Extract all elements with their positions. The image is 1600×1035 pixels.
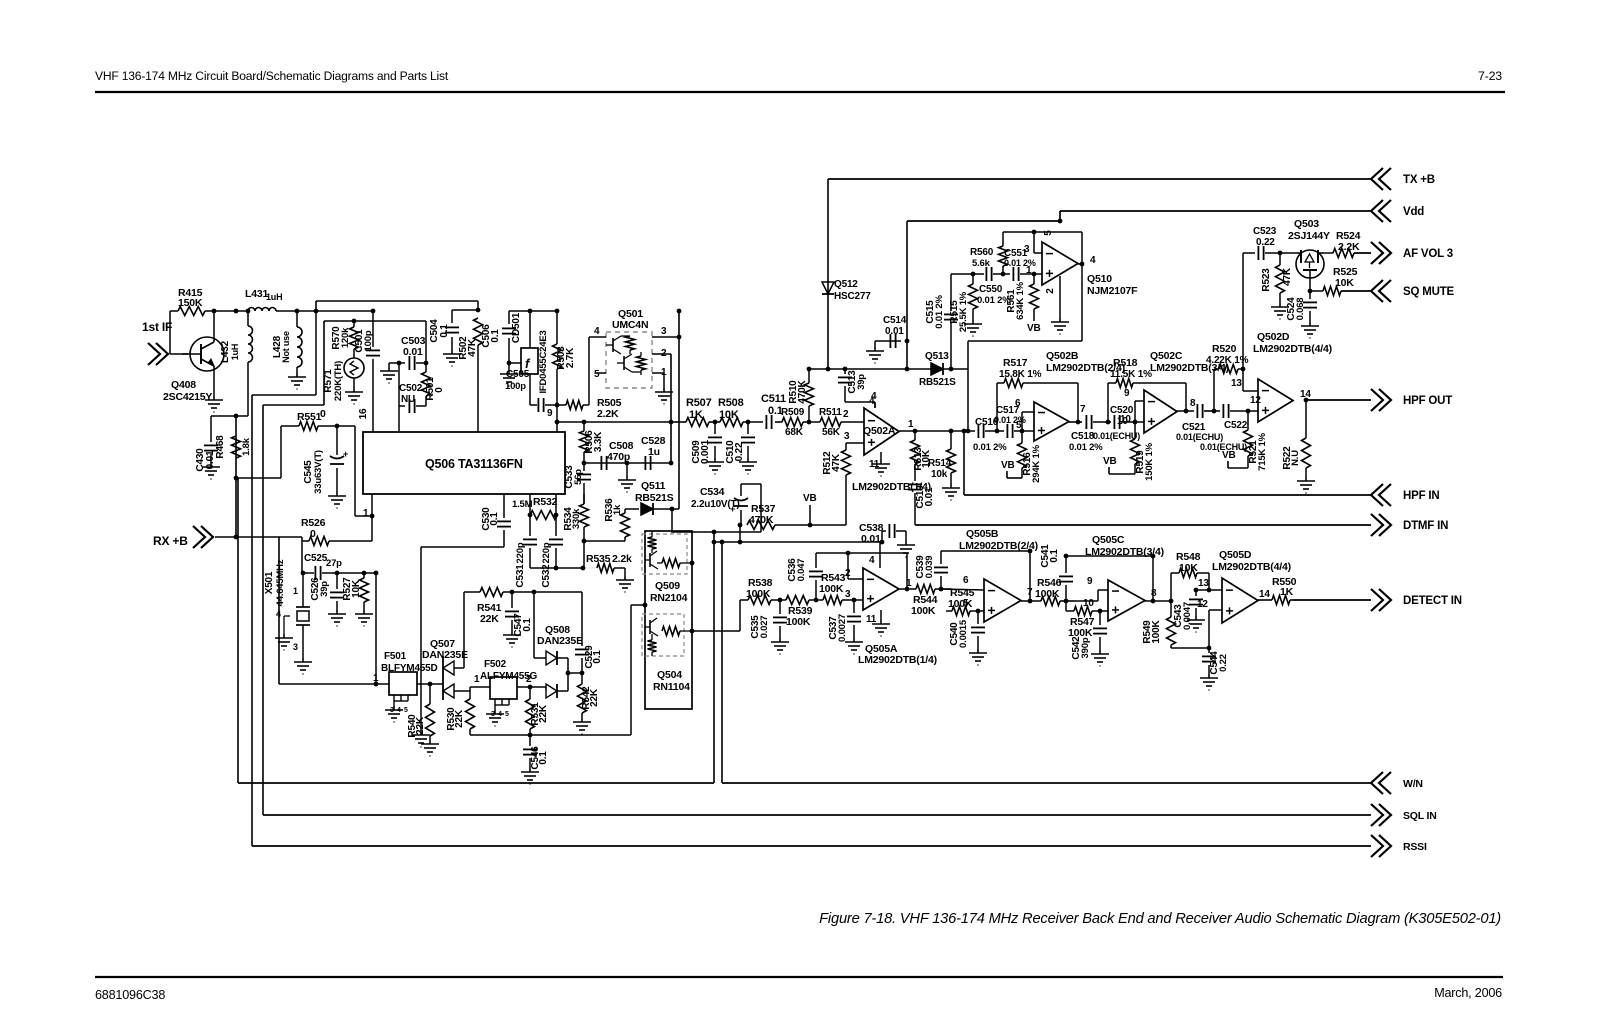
- wire: [301, 537, 303, 573]
- wire pin4: [589, 336, 606, 338]
- svg-text:R509: R509: [781, 407, 805, 418]
- wire x828: [827, 179, 829, 369]
- svg-text:3: 3: [293, 642, 298, 652]
- svg-text:HPF OUT: HPF OUT: [1403, 395, 1452, 407]
- wire y341: [968, 340, 1082, 342]
- svg-text:VB: VB: [803, 493, 817, 504]
- connector RSSI: [1371, 835, 1391, 857]
- svg-text:CD501: CD501: [511, 312, 522, 343]
- svg-text:120k: 120k: [340, 327, 351, 348]
- svg-text:0.1: 0.1: [1049, 549, 1060, 563]
- svg-text:Q503: Q503: [1294, 218, 1319, 230]
- svg-text:5: 5: [505, 711, 509, 718]
- svg-text:LM2902DTB(4/4): LM2902DTB(4/4): [1253, 343, 1332, 355]
- svg-text:0.0047: 0.0047: [1182, 602, 1193, 630]
- svg-text:27p: 27p: [326, 558, 342, 569]
- svg-text:1k: 1k: [612, 504, 623, 515]
- svg-text:0.22: 0.22: [1218, 654, 1229, 672]
- svg-text:12: 12: [1250, 395, 1261, 406]
- wire R544 to minus input: [941, 589, 984, 590]
- svg-text:1: 1: [474, 674, 480, 685]
- svg-text:C514: C514: [883, 315, 907, 326]
- svg-text:4: 4: [594, 326, 600, 337]
- op-amp Q505B: [984, 579, 1021, 622]
- wire x761: [760, 484, 762, 532]
- svg-text:22K: 22K: [589, 688, 600, 707]
- svg-text:C518: C518: [1071, 431, 1095, 442]
- F502 bottom pins: [494, 699, 496, 705]
- svg-text:2.2K: 2.2K: [597, 408, 619, 420]
- svg-text:8: 8: [1190, 398, 1196, 409]
- wire pin5: [596, 372, 606, 374]
- wire R549 to C544: [1171, 647, 1209, 649]
- svg-text:220K(TH): 220K(TH): [333, 361, 344, 401]
- svg-text:39p: 39p: [319, 581, 330, 597]
- wire x316 down: [315, 311, 317, 395]
- svg-text:39p: 39p: [856, 374, 867, 390]
- wire Q505A out: [899, 588, 916, 590]
- wire x671: [670, 354, 672, 463]
- svg-text:25.5K 1%: 25.5K 1%: [958, 291, 969, 332]
- svg-text:Q505C: Q505C: [1092, 534, 1125, 546]
- ground C509: [706, 458, 724, 474]
- wire x324: [323, 321, 325, 405]
- wire F501 out: [417, 683, 443, 685]
- svg-text:4: 4: [276, 609, 281, 619]
- ground X501 pin3: [294, 658, 312, 674]
- ground C540: [969, 649, 987, 665]
- svg-text:DETECT IN: DETECT IN: [1403, 595, 1462, 607]
- transistor Q408: [190, 337, 224, 371]
- wire Q502A output y431: [899, 430, 975, 432]
- wire y735: [470, 734, 631, 736]
- svg-text:2.2k: 2.2k: [612, 553, 632, 565]
- svg-text:IFD0455C24E3: IFD0455C24E3: [538, 330, 549, 393]
- svg-text:1uH: 1uH: [230, 344, 240, 360]
- svg-text:6881096C38: 6881096C38: [95, 988, 165, 1002]
- wire: [213, 366, 215, 396]
- wire R512 to VB: [845, 481, 847, 525]
- svg-text:R520: R520: [1212, 343, 1237, 355]
- wire C534 vertical: [739, 525, 741, 542]
- svg-text:470p: 470p: [607, 451, 630, 463]
- svg-text:10k: 10k: [931, 469, 948, 480]
- wire into box: [671, 509, 673, 531]
- feedback Q505B y551: [941, 550, 1030, 552]
- ground C543: [1187, 616, 1205, 632]
- IC Q506 TA31136FN: [363, 432, 565, 494]
- wire: [169, 311, 171, 354]
- svg-text:0.047: 0.047: [796, 559, 807, 582]
- wire W/N: [722, 782, 1371, 784]
- wire vertical to RSSI: [251, 395, 253, 846]
- wire Vdd: [1060, 210, 1371, 212]
- svg-text:4: 4: [1090, 255, 1096, 266]
- connector TX +B: [1371, 168, 1391, 190]
- wire RSSI: [252, 845, 1371, 847]
- wire SQ MUTE: [1341, 290, 1371, 292]
- wire top bus y301: [316, 300, 478, 302]
- wire feedback right: [1185, 383, 1187, 411]
- svg-text:Q511: Q511: [641, 480, 666, 492]
- wire: [421, 546, 504, 548]
- svg-text:DTMF IN: DTMF IN: [1403, 520, 1448, 532]
- svg-text:22K: 22K: [454, 709, 465, 728]
- wire y369: [809, 368, 968, 370]
- svg-text:W/N: W/N: [1403, 778, 1423, 790]
- wire x964 Q502A out to HPF IN: [963, 431, 965, 495]
- ground Q502A pin11: [880, 452, 882, 460]
- ground R542: [573, 718, 591, 734]
- svg-text:0.0027: 0.0027: [837, 614, 848, 642]
- svg-text:LM2902DTB(1/4): LM2902DTB(1/4): [858, 654, 937, 666]
- svg-text:Not use: Not use: [281, 331, 291, 363]
- svg-text:4: 4: [869, 396, 875, 407]
- wire y463: [584, 462, 671, 464]
- op-amp Q502A: [864, 408, 899, 455]
- ground Q501 pin1: [655, 388, 673, 404]
- svg-text:X501: X501: [264, 571, 275, 594]
- svg-text:RN2104: RN2104: [650, 592, 688, 604]
- svg-text:100p: 100p: [505, 381, 526, 392]
- Q501 interior: [612, 338, 614, 352]
- op-amp Q502D: [1258, 379, 1293, 422]
- svg-text:C525: C525: [304, 553, 328, 564]
- svg-text:0.01 2%: 0.01 2%: [973, 442, 1007, 453]
- wire R513 to DTMF: [915, 524, 916, 526]
- svg-text:1: 1: [293, 586, 298, 596]
- svg-text:R523: R523: [1261, 268, 1272, 292]
- svg-text:9: 9: [1087, 576, 1093, 587]
- wire Q505B out y601: [1021, 600, 1041, 602]
- svg-text:VB: VB: [1103, 456, 1117, 467]
- ground C430: [202, 463, 220, 479]
- wire feedback Q505A y553: [816, 552, 907, 554]
- op-amp Q510 triangle: [1042, 242, 1078, 285]
- svg-text:0: 0: [320, 408, 326, 420]
- wire vertical to W/N: [237, 478, 239, 783]
- wire y422: [557, 421, 671, 423]
- op-amp Q505C: [1108, 580, 1145, 621]
- svg-text:NU: NU: [401, 394, 415, 405]
- svg-text:Q505B: Q505B: [966, 528, 999, 540]
- svg-text:0.1: 0.1: [490, 329, 501, 343]
- svg-text:AF VOL 3: AF VOL 3: [1403, 248, 1453, 260]
- wire Q502B out y422: [1069, 421, 1082, 423]
- svg-text:0.01 2%: 0.01 2%: [1004, 258, 1036, 268]
- wire: [354, 426, 356, 516]
- wire R520 left leg: [1213, 369, 1215, 411]
- wire R502 to IC: [477, 345, 479, 432]
- svg-text:56K: 56K: [822, 427, 841, 438]
- svg-text:Q513: Q513: [925, 351, 949, 362]
- svg-text:5: 5: [404, 707, 408, 714]
- svg-text:0.1: 0.1: [592, 650, 603, 664]
- svg-text:100K: 100K: [911, 605, 936, 617]
- ground C547: [503, 631, 521, 647]
- svg-text:13: 13: [1231, 378, 1242, 389]
- wire from R541 line: [533, 592, 535, 658]
- wire x631: [630, 605, 632, 710]
- wire R541 line to C529: [512, 591, 582, 593]
- svg-text:47K: 47K: [1282, 267, 1293, 286]
- ground C538: [897, 541, 915, 557]
- wire Q508 cathodes: [567, 658, 569, 691]
- svg-text:NJM2107F: NJM2107F: [1087, 285, 1138, 297]
- svg-text:13: 13: [1198, 578, 1209, 589]
- svg-text:3: 3: [845, 589, 851, 600]
- ground R515: [964, 320, 982, 336]
- svg-text:R517: R517: [1003, 357, 1028, 369]
- svg-text:Q408: Q408: [171, 379, 196, 391]
- wire SQL IN: [263, 814, 1371, 816]
- svg-text:Q502C: Q502C: [1150, 350, 1183, 362]
- wire Q504 entry: [631, 604, 645, 606]
- ground R540: [421, 740, 439, 756]
- svg-text:C522: C522: [1224, 420, 1248, 431]
- svg-text:44.645MHz: 44.645MHz: [275, 559, 286, 606]
- svg-text:7: 7: [1080, 404, 1086, 415]
- wire y541: [584, 540, 625, 542]
- ground C510: [739, 458, 757, 474]
- ground F502: [486, 710, 504, 726]
- wire pin stub from 9 down to IC: [556, 405, 558, 432]
- svg-text:VB: VB: [1027, 323, 1041, 334]
- svg-text:2: 2: [526, 674, 532, 685]
- ground Q510 pin2: [1059, 276, 1061, 318]
- wire DTMF IN: [916, 524, 1371, 526]
- ground C537: [845, 638, 863, 654]
- svg-text:VB: VB: [1222, 450, 1236, 461]
- wire pin3: [652, 336, 679, 338]
- svg-text:Q510: Q510: [1087, 273, 1112, 285]
- wire VB rail: [775, 524, 846, 526]
- svg-text:0.1: 0.1: [538, 751, 549, 765]
- svg-text:3.3K: 3.3K: [593, 431, 604, 452]
- svg-text:LM2902DTB(2/4): LM2902DTB(2/4): [959, 540, 1038, 552]
- connector DETECT IN: [1371, 589, 1391, 611]
- svg-text:Vdd: Vdd: [1403, 206, 1424, 218]
- svg-text:330k: 330k: [571, 508, 582, 529]
- svg-text:68K: 68K: [785, 427, 804, 438]
- svg-text:SQL IN: SQL IN: [1403, 810, 1437, 822]
- op-amp Q505D: [1222, 578, 1258, 623]
- ground R514: [942, 484, 960, 500]
- svg-text:UMC4N: UMC4N: [612, 319, 648, 331]
- connector SQ MUTE: [1371, 280, 1391, 302]
- svg-text:5: 5: [963, 598, 969, 609]
- svg-text:Q502A: Q502A: [863, 425, 896, 437]
- svg-text:5: 5: [594, 369, 600, 380]
- wire vertical to SQL IN: [262, 405, 264, 815]
- wire Q509 out right: [692, 562, 714, 564]
- op-amp Q502B: [1034, 402, 1069, 441]
- svg-text:634K 1%: 634K 1%: [1015, 281, 1026, 319]
- svg-text:2: 2: [843, 409, 849, 420]
- svg-text:100K: 100K: [1151, 619, 1162, 643]
- svg-text:0.027: 0.027: [759, 616, 770, 639]
- connector W/N: [1371, 772, 1391, 794]
- svg-text:3: 3: [661, 326, 667, 337]
- svg-text:1: 1: [363, 508, 369, 519]
- wire Q511 line: [625, 508, 639, 510]
- svg-text:Q502B: Q502B: [1046, 350, 1079, 362]
- svg-text:3: 3: [844, 431, 850, 442]
- wire feedback right: [1077, 383, 1079, 422]
- ground R522: [1297, 477, 1315, 493]
- svg-text:RSSI: RSSI: [1403, 841, 1427, 853]
- svg-text:F501: F501: [384, 651, 407, 662]
- svg-text:Q506: Q506: [425, 457, 455, 471]
- ground C503: [380, 367, 398, 383]
- svg-text:1K: 1K: [1280, 586, 1294, 598]
- svg-text:VB: VB: [1001, 460, 1015, 471]
- svg-text:6: 6: [963, 575, 969, 586]
- ground R527: [355, 610, 373, 626]
- ground under Q408: [205, 396, 223, 412]
- ground C542: [1091, 650, 1109, 666]
- wire F502 pin1: [470, 686, 490, 688]
- connector AF VOL 3: [1371, 242, 1391, 264]
- wire rise to minus: [1134, 401, 1136, 422]
- ground F501: [385, 706, 403, 722]
- svg-text:0.0015: 0.0015: [958, 619, 969, 648]
- ground C504: [443, 350, 461, 366]
- svg-text:56p: 56p: [573, 469, 584, 485]
- ground C530 line: [412, 731, 430, 747]
- wire x951: [950, 274, 952, 311]
- wire: [741, 483, 761, 485]
- svg-text:47K: 47K: [467, 338, 478, 357]
- ground C535: [771, 638, 789, 654]
- svg-text:R518: R518: [1113, 357, 1138, 369]
- svg-text:5.6k: 5.6k: [972, 258, 991, 269]
- svg-text:VHF 136-174 MHz Circuit Board/: VHF 136-174 MHz Circuit Board/Schematic …: [95, 69, 449, 83]
- wire rise to minus: [1021, 412, 1023, 431]
- svg-text:TA31136FN: TA31136FN: [458, 457, 523, 471]
- wire F502 out: [517, 686, 546, 688]
- wire: [252, 394, 316, 396]
- connector SQL IN: [1371, 804, 1391, 826]
- svg-text:RN1104: RN1104: [653, 681, 690, 693]
- ground under R571: [345, 388, 363, 404]
- wire bias line y321: [324, 320, 426, 322]
- ground under L428: [288, 373, 306, 389]
- svg-text:10K: 10K: [1335, 277, 1354, 289]
- footer rule: [95, 976, 1503, 978]
- svg-text:C550: C550: [979, 284, 1003, 295]
- svg-text:+: +: [730, 504, 735, 514]
- wire y542: [714, 541, 882, 543]
- ground C508: [626, 463, 628, 476]
- wire to Q505A pin4: [879, 542, 881, 568]
- box Q509/Q504: [645, 531, 692, 709]
- svg-text:2: 2: [1045, 288, 1056, 294]
- svg-text:+: +: [343, 449, 348, 459]
- svg-text:R532: R532: [533, 496, 558, 508]
- wire HPF OUT: [1306, 399, 1371, 401]
- wire x907: [906, 221, 908, 369]
- svg-text:715K 1%: 715K 1%: [1257, 432, 1268, 470]
- svg-text:SQ MUTE: SQ MUTE: [1403, 286, 1455, 298]
- svg-text:R507: R507: [686, 397, 712, 409]
- svg-text:100K: 100K: [819, 583, 844, 595]
- ground C514: [866, 347, 884, 363]
- wire Q504 out to R538: [692, 630, 740, 632]
- svg-text:0.039: 0.039: [924, 556, 935, 579]
- wire pin15 drop: [398, 406, 400, 432]
- wire x679: [678, 311, 680, 509]
- svg-text:Q509: Q509: [655, 580, 680, 592]
- Q505C input wiring: [1074, 600, 1080, 602]
- VB R516: [1006, 471, 1008, 478]
- svg-text:2SC4215Y: 2SC4215Y: [163, 391, 212, 403]
- svg-text:2.7K: 2.7K: [565, 347, 576, 368]
- svg-text:L431: L431: [245, 288, 268, 300]
- svg-text:C502: C502: [399, 383, 423, 394]
- wire pin2: [652, 353, 671, 355]
- connector Vdd: [1371, 200, 1391, 222]
- ground R535: [616, 576, 634, 592]
- svg-text:0.068: 0.068: [1295, 298, 1306, 321]
- svg-text:1.8k: 1.8k: [241, 437, 252, 456]
- wire x968: [967, 341, 969, 431]
- ground C545: [328, 492, 346, 508]
- VB R521: [1227, 461, 1229, 468]
- svg-text:DAN235E: DAN235E: [537, 635, 583, 647]
- svg-text:RX +B: RX +B: [153, 534, 188, 548]
- svg-text:R511: R511: [819, 407, 842, 418]
- svg-text:10: 10: [1083, 598, 1094, 609]
- svg-text:Q512: Q512: [834, 279, 858, 290]
- svg-text:22K: 22K: [538, 704, 549, 723]
- wire Q507 to R541 line: [463, 592, 465, 668]
- svg-text:March, 2006: March, 2006: [1434, 986, 1502, 1000]
- connector DTMF IN: [1371, 514, 1391, 536]
- wire Vdd jog: [907, 220, 1060, 222]
- wire pin1: [652, 372, 664, 374]
- VB tap: [809, 505, 811, 525]
- svg-text:N.U: N.U: [1290, 450, 1301, 466]
- wire W/N left segment: [238, 782, 714, 784]
- svg-text:0.01: 0.01: [861, 533, 881, 545]
- svg-text:7-23: 7-23: [1478, 69, 1502, 83]
- wire: [263, 404, 324, 406]
- svg-text:0: 0: [434, 387, 445, 393]
- svg-text:0.01: 0.01: [885, 326, 904, 337]
- VB R519: [1108, 467, 1110, 474]
- ground C506: [500, 370, 518, 386]
- ground X501 pin4: [275, 634, 293, 650]
- svg-text:0.1: 0.1: [439, 324, 450, 338]
- resistor R468 zigzag: [232, 436, 241, 458]
- svg-text:8: 8: [1151, 588, 1157, 599]
- svg-text:294K 1%: 294K 1%: [1031, 444, 1042, 482]
- wire minus jog: [1074, 600, 1098, 602]
- svg-text:1st IF: 1st IF: [142, 320, 172, 334]
- wire y532: [671, 531, 761, 533]
- svg-text:C511: C511: [761, 393, 786, 405]
- wire to F501: [375, 573, 377, 684]
- F501 bottom pins 3,4,5: [393, 695, 395, 701]
- op-amp Q505A: [863, 568, 899, 610]
- svg-text:Q504: Q504: [657, 669, 682, 681]
- wire Q502C out y411: [1177, 410, 1194, 412]
- svg-text:RB521S: RB521S: [919, 377, 956, 388]
- plus input wire: [1208, 610, 1210, 648]
- svg-text:6: 6: [1015, 398, 1021, 409]
- svg-text:1uH: 1uH: [266, 292, 282, 302]
